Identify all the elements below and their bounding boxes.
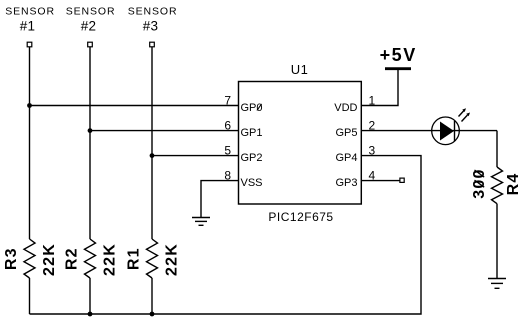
svg-text:GP2: GP2: [241, 152, 263, 164]
wire bottom rail: [30, 156, 422, 314]
svg-text:22K: 22K: [102, 243, 119, 276]
wire R1 to bottom rail: [151, 278, 153, 314]
pin name GP0: [241, 102, 263, 114]
svg-text:22K: 22K: [41, 243, 58, 276]
svg-text:SENSOR: SENSOR: [128, 5, 178, 17]
ground at VSS: [192, 218, 210, 226]
svg-text:GP5: GP5: [335, 127, 357, 139]
svg-text:8: 8: [224, 169, 231, 183]
wire VSS pin 8: [201, 181, 239, 217]
svg-text:GP3: GP3: [335, 177, 357, 189]
diode LED D1 circle: [432, 117, 460, 145]
wire R2 to bottom rail: [89, 278, 91, 314]
resistor R3: [24, 239, 35, 278]
svg-text:#3: #3: [143, 18, 158, 33]
wire GP5 pin 2 to LED: [361, 130, 497, 132]
wire GP3 pin 4 stub: [361, 180, 400, 182]
sensor #1 terminal: [27, 42, 32, 47]
svg-text:R3: R3: [3, 247, 20, 270]
resistor R1: [147, 239, 158, 278]
junction R2 bottom rail: [88, 312, 93, 317]
svg-text:GP1: GP1: [241, 127, 263, 139]
svg-text:#1: #1: [20, 18, 35, 33]
diode LED D1 cathode bar: [454, 121, 456, 141]
svg-text:PIC12F675: PIC12F675: [268, 210, 333, 224]
wire sensor2 vertical: [89, 47, 91, 239]
junction sensor3-GP2: [150, 153, 155, 158]
junction R1 bottom rail: [150, 312, 155, 317]
wire sensor3 vertical: [151, 47, 153, 239]
svg-text:VSS: VSS: [241, 177, 263, 189]
svg-text:R2: R2: [63, 247, 80, 270]
svg-text:R1: R1: [125, 247, 142, 270]
wire GP0 pin 7: [30, 105, 239, 107]
power +5V bar: [385, 67, 411, 70]
svg-text:3: 3: [369, 144, 376, 158]
diode LED D1 arrow 2: [462, 113, 471, 122]
diode LED D1 triangle: [440, 122, 454, 141]
svg-text:2: 2: [369, 119, 376, 133]
wire GP2 pin 5: [152, 155, 239, 157]
wire VDD pin 1 to +5V: [361, 70, 398, 106]
svg-text:7: 7: [224, 94, 231, 108]
junction sensor2-GP1: [88, 128, 93, 133]
label SENSOR #3: [128, 5, 178, 33]
wire sensor1 vertical: [29, 47, 31, 239]
svg-text:VDD: VDD: [334, 102, 357, 114]
wire R4 to ground: [496, 204, 498, 278]
svg-text:4: 4: [369, 169, 376, 183]
label R4 value 300: [471, 168, 488, 198]
sensor #2 terminal: [88, 42, 93, 47]
svg-text:6: 6: [224, 119, 231, 133]
label SENSOR #2: [66, 5, 116, 33]
svg-text:+5V: +5V: [380, 45, 417, 65]
svg-text:GP4: GP4: [335, 152, 357, 164]
svg-text:SENSOR: SENSOR: [5, 5, 55, 17]
ground at R4: [488, 279, 506, 289]
wire LED to R4: [496, 131, 498, 167]
wire GP1 pin 6: [90, 130, 239, 132]
junction sensor1-GP0: [27, 103, 32, 108]
label SENSOR #1: [5, 5, 55, 33]
svg-text:U1: U1: [291, 62, 309, 77]
ic U1 body: [239, 82, 362, 205]
diode LED D1 arrow 1: [459, 108, 467, 116]
svg-text:1: 1: [369, 94, 376, 108]
svg-text:22K: 22K: [164, 243, 181, 276]
svg-text:#2: #2: [81, 18, 96, 33]
sensor #3 terminal: [150, 42, 155, 47]
svg-text:SENSOR: SENSOR: [66, 5, 116, 17]
svg-text:R4: R4: [505, 172, 522, 195]
terminal GP3: [400, 178, 404, 182]
resistor R2: [85, 239, 96, 278]
svg-text:5: 5: [224, 144, 231, 158]
resistor R4: [492, 167, 503, 204]
wire R3 to bottom rail: [29, 278, 31, 314]
